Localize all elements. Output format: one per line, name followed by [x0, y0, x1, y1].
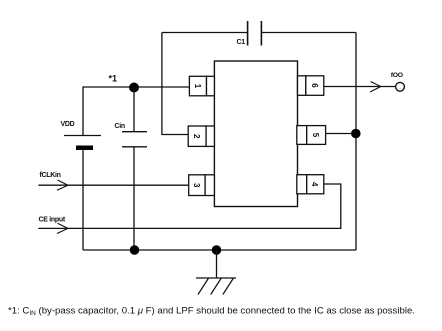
svg-text:2: 2 [192, 134, 201, 139]
pin 2 [188, 126, 214, 146]
wire right vertical from C1 down to ground rail [355, 33, 357, 251]
node junction dot at Cin [129, 83, 139, 93]
capacitor Cin [115, 88, 148, 251]
svg-text:3: 3 [192, 183, 201, 188]
svg-text:*1: *1 [109, 74, 118, 84]
wire CE input to pin4 routing [38, 184, 340, 228]
svg-text:6: 6 [310, 83, 319, 88]
wire pin5 to right vertical [326, 133, 356, 135]
svg-text:5: 5 [311, 133, 320, 138]
IC body U1 [214, 61, 297, 207]
pin 6 [298, 76, 324, 96]
svg-text:C1: C1 [237, 39, 246, 46]
wire VDD below battery to rail [82, 148, 84, 250]
svg-text:fOO: fOO [391, 72, 403, 79]
svg-text:1: 1 [193, 84, 202, 89]
arrow on output wire [370, 82, 381, 93]
svg-text:*1: CIN (by-pass capacitor, 0.: *1: CIN (by-pass capacitor, 0.1 μ F) and… [8, 306, 415, 318]
pin 1 [189, 76, 214, 96]
svg-text:4: 4 [310, 182, 319, 187]
arrow on CE input wire [57, 223, 68, 233]
pin 5 [297, 126, 326, 145]
wire left vertical from C1 down to pin2 [162, 33, 189, 135]
arrow on fCLKin wire [57, 180, 68, 190]
junction dot ground stem/rail [212, 245, 222, 255]
wire C1 top left segment [162, 32, 247, 34]
junction dot Cin/rail [130, 245, 140, 255]
output terminal circle [396, 82, 405, 91]
wire ground rail [83, 249, 356, 251]
svg-text:CE input: CE input [39, 217, 66, 224]
svg-text:fCLKin: fCLKin [40, 172, 61, 179]
battery VDD [61, 121, 102, 150]
wire fCLKin to pin3 [38, 184, 189, 186]
wire pin6 to output [324, 86, 396, 88]
svg-text:Cin: Cin [115, 123, 125, 130]
ground [196, 250, 236, 295]
pin 3 [189, 175, 215, 196]
pin 4 [297, 175, 324, 194]
wire C1 top right segment [262, 32, 356, 34]
capacitor C1 [237, 21, 262, 46]
junction dot pin5/right vertical [351, 129, 361, 139]
svg-text:VDD: VDD [61, 121, 75, 128]
wire VDD node to pin1 [83, 87, 190, 136]
